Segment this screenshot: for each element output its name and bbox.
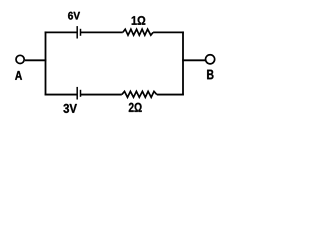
wire: top branch left segment: [45, 31, 77, 33]
battery V2 3V: short plate: [80, 90, 82, 97]
wire: top branch right segment: [153, 31, 184, 33]
wire: bottom branch right segment: [157, 94, 184, 96]
wire: bottom branch middle segment: [80, 94, 121, 96]
label A: [15, 71, 22, 80]
wire: left vertical bus: [45, 31, 47, 95]
label 6V: [68, 12, 80, 20]
label 3V: [63, 104, 77, 113]
terminal B circle: [206, 55, 215, 64]
wire: bottom branch left segment: [45, 94, 77, 96]
battery V1 6V: short plate: [80, 29, 82, 36]
label 2 ohm: [129, 103, 142, 112]
battery V1 6V: long plate: [76, 26, 78, 38]
label 1 ohm: [132, 16, 146, 25]
label B: [207, 70, 213, 80]
wire: top branch middle segment: [80, 31, 122, 33]
wire: stub to terminal B: [182, 59, 205, 61]
wire: right vertical bus: [182, 31, 184, 95]
resistor R1 1 ohm: [123, 29, 153, 35]
wire: stub to terminal A: [25, 59, 46, 61]
battery V2 3V: long plate: [76, 87, 78, 100]
resistor R2 2 ohm: [122, 91, 157, 97]
terminal A circle: [16, 55, 24, 63]
